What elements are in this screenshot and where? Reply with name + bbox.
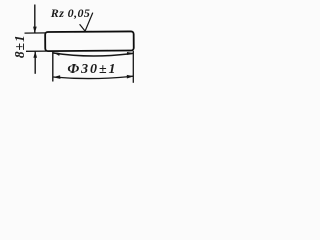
upper dimension line (just below disc) [54, 53, 134, 56]
dimension line lower segment (8-dim) [34, 52, 36, 74]
left extension line (Ф30-dim) [52, 51, 54, 81]
disc body (side view rectangle, rounded corners) [45, 31, 134, 51]
lower left arrow [53, 75, 61, 79]
arrow up (8-dim) [33, 51, 37, 58]
lower right arrow [127, 75, 134, 79]
extension line top (8-dim) [25, 32, 47, 34]
right extension line (Ф30-dim) [132, 51, 134, 83]
dimension line upper segment (8-dim) [34, 5, 36, 33]
extension line bottom (8-dim) [26, 50, 47, 52]
svg-text:Ф30±1: Ф30±1 [67, 62, 117, 77]
surface roughness check mark [80, 13, 93, 32]
paper background [0, 0, 147, 91]
arrow down (8-dim) [33, 27, 37, 34]
svg-text:Rz 0,05: Rz 0,05 [50, 6, 90, 20]
svg-text:8±1: 8±1 [12, 34, 27, 58]
upper left arrow [53, 52, 60, 56]
upper right arrow [127, 52, 134, 55]
lower dimension line (Ф30-dim) [53, 76, 133, 78]
